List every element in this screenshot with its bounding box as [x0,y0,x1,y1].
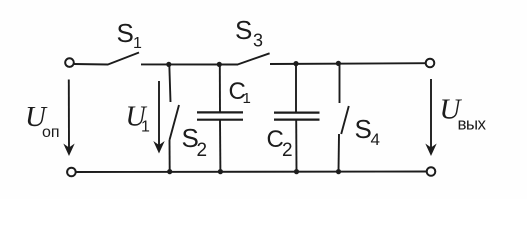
terminal top-right [426,59,435,68]
node junction C2 bottom [294,169,299,174]
node junction S2 bottom [167,169,172,174]
svg-text:1: 1 [243,90,251,107]
capacitor C1 [197,112,243,119]
svg-text:1: 1 [133,35,142,52]
arrow Uop [63,80,74,157]
svg-text:оп: оп [42,124,60,141]
wire top right [270,62,426,65]
svg-text:2: 2 [197,140,208,161]
arrow U1 [153,81,164,154]
wire C2 top lead [295,64,297,113]
terminal bottom-right [427,167,436,176]
capacitor C2 [274,113,320,120]
svg-text:2: 2 [282,140,293,161]
svg-text:4: 4 [371,130,380,149]
wire C1 top lead [219,64,221,112]
wire C1 bottom lead [219,120,221,172]
wire S1 left lead [74,63,108,66]
svg-text:1: 1 [141,119,150,136]
switch S3 blade [238,53,270,64]
label Uvyh [440,94,487,134]
svg-text:S: S [117,18,134,48]
node junction C2 top [293,61,298,66]
wire C2 bottom lead [295,120,297,172]
wire S2 branch bottom lead [169,140,171,172]
node junction S4 bottom [336,169,341,174]
wire S2 branch top lead [169,64,170,102]
terminal top-left [65,58,74,67]
arrow Uvyh [425,79,436,156]
svg-text:3: 3 [253,31,263,51]
label S4 [355,114,380,149]
label U1 [126,102,151,136]
terminal bottom-left [67,168,76,177]
node junction C1 top [217,62,222,67]
node junction C1 bottom [218,169,223,174]
svg-text:S: S [355,114,372,144]
switch S2 blade [170,105,180,140]
wire top middle [141,63,238,65]
switch S4 blade [341,106,349,134]
svg-text:S: S [235,15,252,45]
switch S1 blade [108,53,139,65]
label S1 [117,18,143,52]
wire S4 branch top lead [339,63,341,103]
svg-text:вых: вых [458,115,487,134]
label C1 [229,78,251,107]
node junction S4 top [336,61,341,66]
label C2 [267,126,293,161]
node junction S2 top [166,62,171,67]
label S3 [235,15,263,51]
wire bottom [76,171,426,174]
label Uop [25,101,60,141]
wire S4 branch bottom lead [338,134,341,172]
label S2 [182,123,208,161]
